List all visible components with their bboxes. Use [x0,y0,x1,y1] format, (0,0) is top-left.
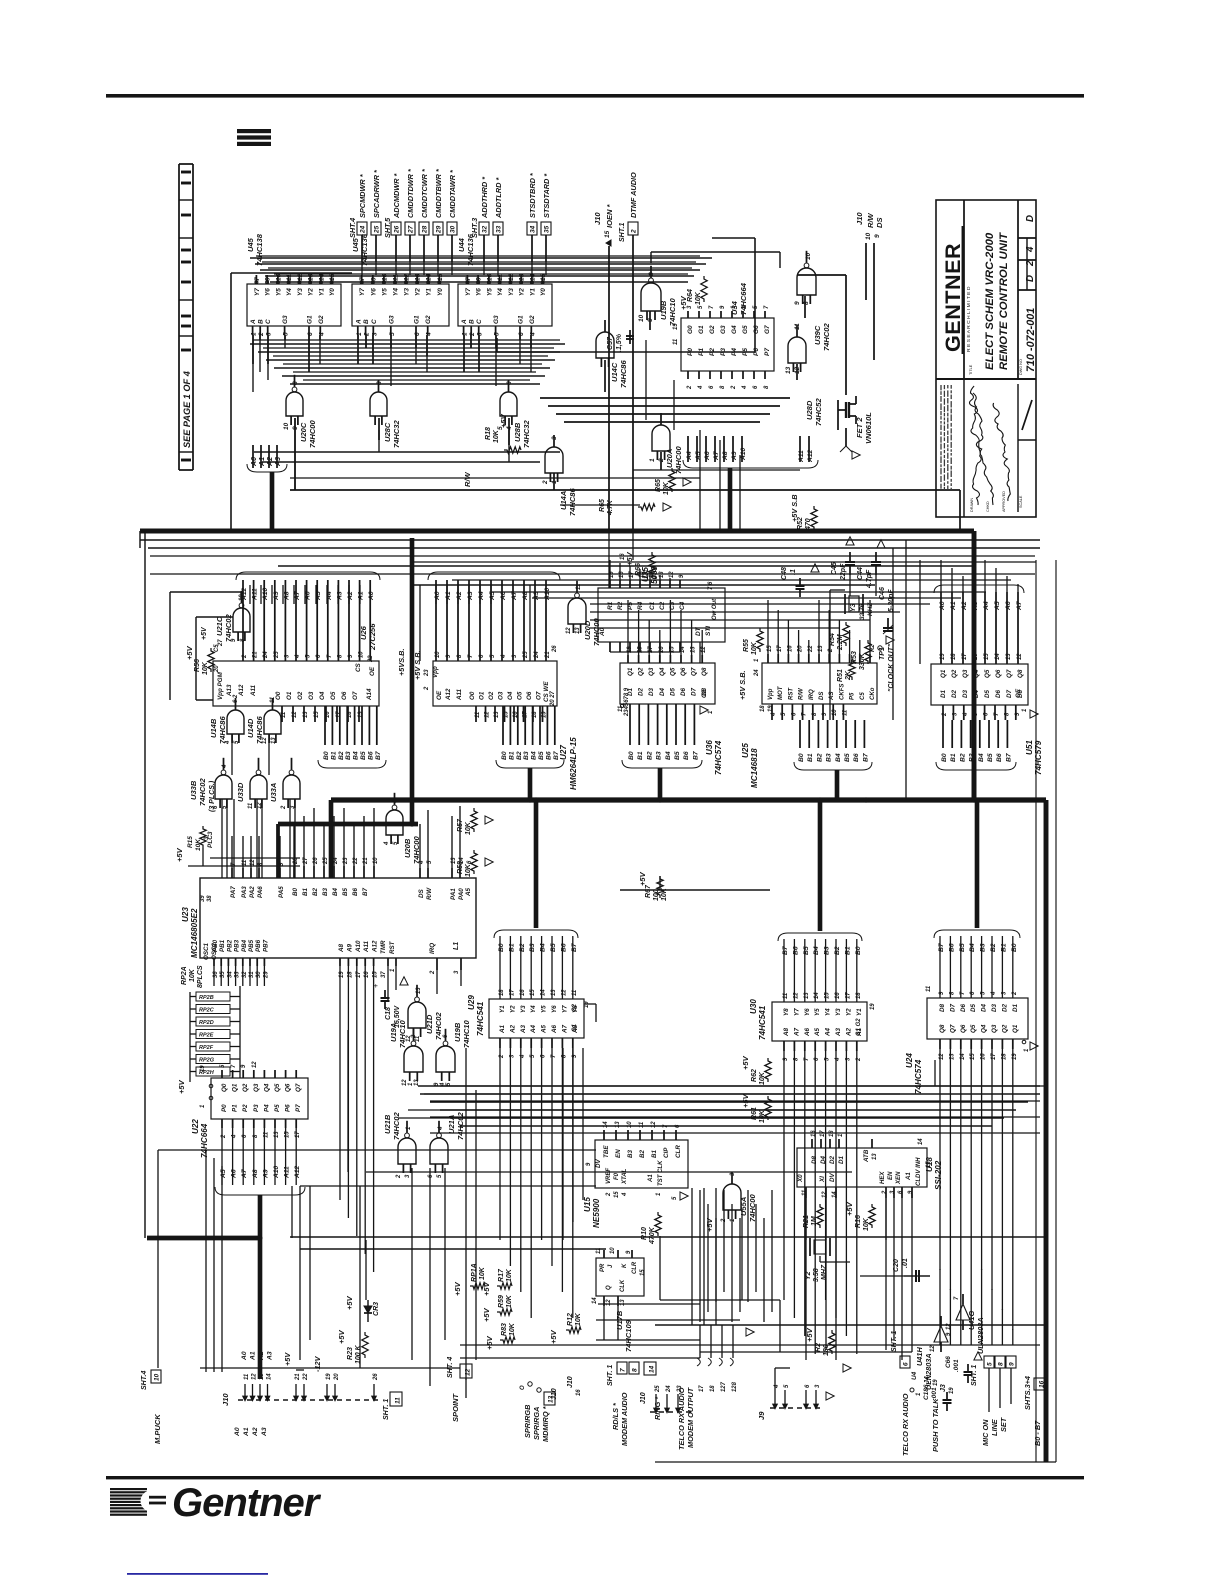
svg-text:XTAL: XTAL [622,1168,628,1185]
svg-text:34: 34 [530,225,537,233]
svg-text:.1,5%: .1,5% [616,333,623,352]
svg-text:330K: 330K [859,652,866,670]
U24 data fan B7-B0 [939,936,941,998]
wire verticals center-bottom [562,1048,564,1240]
svg-text:15: 15 [825,992,831,999]
svg-text:Q5: Q5 [274,1083,281,1092]
resistor R15 10K PLC3 [200,826,206,848]
svg-text:Y4: Y4 [286,288,293,296]
svg-text:2K: 2K [845,670,852,681]
svg-text:1: 1 [916,1393,922,1396]
svg-text:25: 25 [374,225,381,234]
svg-text:U25: U25 [741,743,750,758]
svg-text:ADDTHRD *: ADDTHRD * [480,176,489,219]
svg-text:74HC86: 74HC86 [619,360,628,388]
svg-text:P7: P7 [764,348,771,356]
svg-text:U22: U22 [191,1119,200,1134]
svg-text:7: 7 [359,277,366,281]
wire middle long horizontals full width [150,555,1035,557]
svg-text:B3: B3 [529,943,536,952]
svg-text:CKo: CKo [870,687,876,700]
svg-text:16: 16 [973,653,979,660]
svg-text:4.7pF: 4.7pF [866,569,873,589]
svg-text:D1: D1 [940,689,947,698]
svg-text:B7: B7 [692,751,699,760]
svg-text:Y7: Y7 [254,288,261,296]
svg-text:G3: G3 [493,315,500,324]
svg-text:RP2B: RP2B [199,995,214,1001]
svg-text:CMDDTCWR *: CMDDTCWR * [420,168,429,218]
svg-text:B3: B3 [969,753,976,762]
svg-text:J4: J4 [924,1376,931,1384]
svg-text:Q1: Q1 [627,667,634,676]
svg-text:+5VS.B.: +5VS.B. [397,649,406,677]
svg-text:G4: G4 [731,325,738,334]
svg-text:G6: G6 [753,325,760,334]
svg-text:Y7: Y7 [359,288,366,296]
svg-text:A10: A10 [273,1165,280,1179]
svg-text:Q3: Q3 [253,1083,260,1092]
svg-text:P5: P5 [850,692,856,700]
svg-text:B6: B6 [545,751,552,760]
svg-text:+5V: +5V [201,626,208,640]
svg-text:A7: A7 [713,451,720,461]
wire verticals from U23 bottom down [339,966,341,1200]
wire mid risers reinforcement [435,585,437,604]
svg-text:O2: O2 [488,691,495,700]
svg-text:11: 11 [576,584,582,590]
IC U45 74HC138 decoder [247,284,341,326]
svg-text:Q2: Q2 [1001,1024,1008,1033]
svg-text:SHT.3: SHT.3 [470,218,479,238]
IC U36 74HC574 [620,663,715,704]
svg-text:12: 12 [252,1061,258,1068]
svg-text:74HC02: 74HC02 [392,1112,401,1140]
bus thick horizontal lower [331,797,1046,802]
svg-text:A4: A4 [825,1027,832,1037]
svg-text:U33B: U33B [189,780,198,800]
NAND gate U19B 74HC10 [436,1046,455,1072]
footer blue rule [127,1573,268,1575]
svg-text:OE: OE [436,690,443,700]
svg-text:B3: B3 [980,943,987,952]
svg-text:R64: R64 [687,289,694,302]
IC U30 74HC541 [772,1002,867,1041]
wire horizontals gates to right [418,1085,1040,1087]
svg-text:Y6: Y6 [476,288,483,296]
svg-text:EN: EN [615,1149,622,1158]
resistor R62 10K [765,1058,771,1082]
svg-text:25: 25 [655,1385,661,1393]
svg-text:13: 13 [259,1373,265,1380]
U27 data fan B0-B7 [502,706,504,745]
svg-text:HM6264LP-15: HM6264LP-15 [569,737,578,790]
svg-text:R2: R2 [815,1343,822,1352]
svg-text:A0: A0 [368,591,375,601]
svg-text:J10: J10 [551,1388,558,1400]
wire decoder bottom drops [252,335,254,364]
svg-text:19: 19 [768,705,774,712]
svg-text:14: 14 [814,992,820,999]
svg-text:Y5: Y5 [541,1005,548,1013]
svg-text:C45: C45 [831,562,838,575]
svg-text:+: + [371,983,380,988]
svg-text:Q8: Q8 [1017,669,1024,678]
svg-text:PA5: PA5 [278,886,285,898]
svg-text:B2: B2 [990,943,997,952]
hamburger icon [237,129,271,133]
svg-text:O1: O1 [479,691,486,700]
svg-text:B7: B7 [571,943,578,952]
svg-text:4.7K: 4.7K [607,499,614,516]
svg-text:2345678 9: 2345678 9 [624,687,630,717]
svg-text:U20C: U20C [299,422,308,442]
svg-text:Q5: Q5 [970,1024,977,1033]
svg-text:9: 9 [874,234,881,238]
NAND gate U20B 74HC00 [386,810,403,835]
svg-text:Q1: Q1 [940,669,947,678]
svg-text:Q6: Q6 [285,1083,292,1092]
svg-text:A8: A8 [783,1027,790,1037]
svg-text:12: 12 [793,992,799,999]
svg-text:12: 12 [606,1299,612,1306]
wire +5V resistor rail [202,848,204,866]
svg-text:1: 1 [656,1193,662,1196]
svg-text:D1: D1 [838,1155,845,1164]
svg-text:2: 2 [731,385,737,390]
svg-text:B7: B7 [938,943,945,952]
svg-text:P3: P3 [253,1104,260,1112]
svg-text:Y3: Y3 [835,1008,842,1016]
U36 data fan B0-B7 [629,704,631,745]
svg-text:Y2: Y2 [845,1008,852,1016]
svg-text:17: 17 [962,653,968,660]
svg-text:B3: B3 [322,887,329,896]
svg-text:Y4: Y4 [825,1008,832,1016]
bus thick vertical to U23 [329,800,334,878]
svg-text:ADDTLRD *: ADDTLRD * [494,177,503,219]
svg-text:U28C: U28C [383,422,392,442]
wire long left verticals [347,1030,349,1172]
svg-text:B1: B1 [637,751,644,760]
svg-text:PUSH TO TALK: PUSH TO TALK [931,1398,940,1452]
svg-text:A11: A11 [798,450,805,463]
IC U23 MC146805E2 [200,878,476,958]
svg-text:13: 13 [271,737,277,744]
svg-text:D5: D5 [669,687,676,696]
svg-text:A9: A9 [262,1169,269,1179]
svg-text:74HC574: 74HC574 [914,1059,923,1094]
svg-text:4: 4 [991,991,997,996]
svg-text:Y1: Y1 [318,288,325,296]
svg-text:STSDTBRD *: STSDTBRD * [528,172,537,218]
svg-text:B1: B1 [1000,943,1007,952]
svg-text:Y1: Y1 [529,288,536,296]
svg-text:R83: R83 [501,1323,508,1336]
svg-text:24: 24 [263,651,269,659]
title block frame [936,200,1036,517]
svg-text:37: 37 [381,971,387,978]
svg-text:Q5: Q5 [984,669,991,678]
svg-text:PB0: PB0 [212,939,219,952]
svg-text:G2: G2 [529,315,536,324]
svg-text:Y4: Y4 [530,1005,537,1013]
svg-text:127: 127 [721,1381,727,1392]
resistor R67 100 10K [657,876,663,898]
svg-text:13: 13 [620,1299,626,1306]
svg-text:Y3: Y3 [508,288,515,296]
resistor R51 2K [849,658,855,680]
svg-text:10K: 10K [465,863,472,877]
svg-text:O5: O5 [517,691,524,700]
svg-text:VN0610L: VN0610L [864,412,873,444]
svg-text:A0: A0 [434,591,441,601]
svg-text:SHT.4: SHT.4 [141,1371,148,1390]
svg-text:74HC10: 74HC10 [462,1020,471,1048]
svg-text:J10: J10 [855,212,864,225]
svg-text:Q5: Q5 [669,667,676,676]
svg-text:RST: RST [788,687,794,700]
svg-text:B2: B2 [519,943,526,952]
svg-text:ELECT SCHEM VRC-2000: ELECT SCHEM VRC-2000 [984,232,996,370]
svg-text:B6: B6 [352,887,359,896]
resistor R57 10K [471,808,477,832]
svg-text:16: 16 [835,992,841,999]
svg-text:10: 10 [627,1121,633,1128]
svg-text:A8: A8 [252,1169,259,1179]
svg-text:P0: P0 [221,1104,228,1112]
svg-text:R59: R59 [498,1295,505,1308]
svg-text:A14: A14 [366,688,373,701]
OR gate U28C 74HC32 [370,392,387,416]
svg-text:MODEM OUTPUT: MODEM OUTPUT [686,1387,695,1448]
svg-text:PA1: PA1 [450,888,457,900]
svg-text:D5: D5 [970,1003,977,1012]
svg-text:Y5: Y5 [814,1008,821,1016]
bus thick horizontal middle-left [278,822,418,827]
svg-text:11: 11 [639,1122,645,1128]
svg-text:15: 15 [530,989,536,996]
svg-text:10K: 10K [663,481,670,495]
U26 address fan A12-A0 [242,580,244,661]
svg-text:A2: A2 [845,1027,852,1037]
resistor R61 10K [765,1096,771,1120]
svg-text:20: 20 [334,1373,340,1381]
svg-text:23: 23 [424,669,430,677]
svg-text:74HC02: 74HC02 [198,778,207,806]
arrow U36 OE [700,706,708,714]
svg-text:74HC52: 74HC52 [814,398,823,426]
svg-text:D6: D6 [960,1003,967,1012]
svg-text:A7: A7 [793,1027,800,1037]
svg-text:A: A [355,319,362,325]
svg-text:Q6: Q6 [995,669,1002,678]
svg-text:(3 PLCS.): (3 PLCS.) [209,780,216,812]
svg-text:SHT. 1: SHT. 1 [383,1399,390,1420]
U23 top pins B0-B7 bus [293,866,295,878]
svg-text:A1: A1 [250,1351,257,1361]
svg-text:PB3: PB3 [234,939,241,952]
svg-text:Q2: Q2 [638,667,645,676]
svg-text:A11: A11 [250,684,257,697]
svg-text:1: 1 [838,1134,844,1137]
svg-text:B5: B5 [550,943,557,952]
svg-text:B5: B5 [959,943,966,952]
svg-text:DS: DS [418,888,425,898]
svg-text:B2: B2 [646,751,653,760]
Gentner logo equals sign [149,1496,166,1499]
svg-text:13: 13 [416,987,422,994]
svg-text:B1: B1 [651,1149,658,1158]
svg-text:D7: D7 [949,1003,956,1012]
U51 address fan A0-A7 [940,592,942,664]
svg-text:R1: R1 [607,601,614,610]
svg-text:9: 9 [476,277,483,281]
svg-text:O2: O2 [297,691,304,700]
NOR gate U33A [283,775,300,799]
svg-text:5: 5 [494,332,501,336]
U27 address fan A0-A10 [435,580,437,661]
svg-text:P4: P4 [731,348,738,356]
svg-text:13: 13 [575,627,581,634]
svg-text:J10: J10 [567,1376,574,1388]
bus junction dots [409,797,414,802]
svg-text:U20A: U20A [665,449,674,468]
wire verticals bottom mid extra [465,1048,467,1380]
svg-text:RING *: RING * [653,1396,662,1420]
svg-text:B3: B3 [345,751,352,760]
svg-text:TELCO RX AUDIO: TELCO RX AUDIO [677,1387,686,1450]
svg-text:Y4: Y4 [393,288,400,296]
svg-text:B4: B4 [531,751,538,760]
U23 top pins PA7-PA0 [231,868,233,878]
svg-text:SHT. 4: SHT. 4 [447,1357,454,1378]
svg-text:U15: U15 [583,1197,592,1212]
wire top extra verticals [252,335,254,392]
IC U15 NE5900 [595,1140,688,1188]
svg-text:A12: A12 [807,449,814,463]
resistor RP1A 10K [470,1283,485,1289]
svg-text:J10: J10 [593,212,602,225]
svg-text:+5V S.B.: +5V S.B. [738,670,747,700]
svg-text:A10: A10 [262,587,269,601]
svg-text:G3: G3 [720,325,727,334]
svg-text:MDMIRQ *: MDMIRQ * [541,1405,550,1442]
svg-text:A1: A1 [445,591,452,601]
XOR gate U14A 74HC86 [545,447,563,473]
svg-text:A10: A10 [544,587,551,601]
svg-text:GENTNER: GENTNER [940,243,965,352]
svg-text:A8: A8 [722,451,729,461]
svg-text:A6: A6 [704,451,711,461]
svg-text:14: 14 [918,1138,924,1145]
svg-text:9: 9 [265,277,272,281]
svg-text:35: 35 [544,225,551,233]
svg-text:14: 14 [541,989,547,996]
svg-text:PB7: PB7 [262,939,269,952]
svg-text:B: B [258,319,265,324]
svg-text:FET 2: FET 2 [855,417,864,438]
NOR gate U21C 74HC02 [233,608,250,632]
svg-text:21: 21 [253,651,259,659]
svg-text:13: 13 [872,1153,878,1160]
svg-text:A9: A9 [273,591,280,601]
wire crystal rails [849,575,851,596]
svg-text:MODEM AUDIO: MODEM AUDIO [620,1392,629,1446]
U23 top pins DS R/W PA1 PA0 A5 [419,868,421,878]
bracket above U24 fan [934,930,1020,938]
svg-text:B5: B5 [674,751,681,760]
svg-text:A11: A11 [252,588,259,601]
svg-text:RP2E: RP2E [199,1033,214,1039]
svg-text:26: 26 [394,225,401,234]
svg-text:A: A [461,319,468,325]
svg-text:18: 18 [710,1385,716,1392]
svg-text:A6: A6 [551,1024,558,1034]
svg-text:B4: B4 [978,753,985,762]
IC U45 74HC136 decoder [352,284,449,326]
svg-text:B0: B0 [498,943,505,952]
svg-text:U33D: U33D [236,782,245,802]
svg-text:3.58: 3.58 [813,1268,820,1282]
svg-text:A11: A11 [363,940,370,953]
svg-text:U41H: U41H [915,1347,924,1366]
svg-text:REMOTE CONTROL UNIT: REMOTE CONTROL UNIT [998,232,1010,370]
svg-text:R/W: R/W [426,887,433,900]
svg-text:B5: B5 [360,751,367,760]
svg-text:NE5900: NE5900 [592,1198,601,1228]
svg-text:710 -072-001: 710 -072-001 [1025,308,1037,372]
svg-text:16: 16 [1039,1380,1046,1388]
svg-text:Y6: Y6 [265,288,272,296]
svg-text:27: 27 [408,225,415,234]
svg-text:C: C [371,319,378,324]
svg-text:B1: B1 [330,751,337,760]
svg-text:19: 19 [949,1387,955,1394]
svg-text:C: C [265,319,272,324]
svg-text:SSI-202: SSI-202 [934,1160,943,1190]
NAND gate U19A 74HC10 [404,1046,423,1072]
wire bus stub down right [728,468,733,531]
svg-text:B1: B1 [302,887,309,896]
svg-text:A5: A5 [465,887,472,897]
svg-text:-12V: -12V [313,1355,322,1372]
svg-text:10: 10 [239,594,245,601]
svg-text:PA3: PA3 [241,886,248,898]
svg-text:18: 18 [856,992,862,999]
IC U22 74HC664 [211,1078,308,1119]
svg-text:.01: .01 [902,1258,909,1268]
svg-text:3: 3 [266,332,273,336]
svg-text:G1: G1 [572,1024,578,1032]
svg-text:B3: B3 [824,946,831,955]
svg-text:B0: B0 [501,751,508,760]
svg-text:2: 2 [424,686,430,691]
svg-text:U24: U24 [905,1053,914,1068]
svg-text:ATB: ATB [863,1149,870,1163]
svg-text:.001: .001 [953,1359,960,1372]
wire right mid horizontals [620,889,770,891]
svg-text:10K: 10K [661,887,668,901]
svg-text:17: 17 [845,992,851,999]
svg-text:3: 3 [477,332,484,336]
bus thick horizontal left-bottom [147,1236,260,1241]
svg-text:12: 12 [566,627,572,634]
svg-text:74HC86: 74HC86 [255,716,264,744]
svg-text:Q8: Q8 [939,1024,946,1033]
svg-text:O0: O0 [275,691,282,700]
svg-text:SPOINT: SPOINT [451,1393,460,1422]
